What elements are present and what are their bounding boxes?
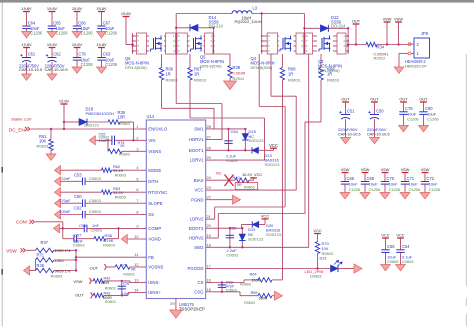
- svg-text:C65: C65: [53, 20, 61, 25]
- svg-text:C0603: C0603: [89, 209, 102, 214]
- svg-text:R0603: R0603: [327, 78, 340, 83]
- svg-text:VCC: VCC: [269, 143, 278, 148]
- svg-text:19.8V: 19.8V: [72, 6, 83, 11]
- svg-text:PQ2012_10UH: PQ2012_10UH: [235, 19, 262, 24]
- svg-text:VSW: VSW: [383, 16, 392, 21]
- svg-text:R40: R40: [233, 175, 241, 180]
- svg-text:1R: 1R: [288, 72, 293, 77]
- svg-text:OUT: OUT: [75, 293, 84, 298]
- svg-text:R0603: R0603: [119, 152, 130, 156]
- svg-text:C61: C61: [28, 52, 36, 57]
- svg-text:19.8V: 19.8V: [21, 6, 32, 11]
- svg-text:C1206: C1206: [30, 30, 43, 35]
- svg-text:CAP-10-10.5: CAP-10-10.5: [45, 67, 69, 72]
- svg-text:BIAS: BIAS: [194, 178, 204, 183]
- svg-text:D21: D21: [320, 255, 328, 260]
- svg-text:10K0: 10K0: [55, 258, 65, 263]
- svg-text:R71: R71: [37, 252, 45, 257]
- svg-text:CSG: CSG: [194, 289, 204, 294]
- svg-text:VSW: VSW: [73, 279, 82, 284]
- svg-text:15: 15: [207, 287, 211, 292]
- svg-text:SLOPE: SLOPE: [148, 201, 162, 206]
- svg-text:VISNS: VISNS: [148, 149, 161, 154]
- svg-text:C0603: C0603: [73, 242, 84, 247]
- svg-text:22nF: 22nF: [61, 176, 71, 181]
- svg-text:2: 2: [136, 135, 138, 140]
- svg-text:Stable 3.3V: Stable 3.3V: [11, 116, 32, 121]
- svg-text:TSSOP28-EP: TSSOP28-EP: [179, 307, 205, 312]
- svg-text:10R: 10R: [118, 114, 126, 119]
- svg-text:DO-214: DO-214: [209, 24, 224, 29]
- svg-text:R0603: R0603: [244, 186, 255, 190]
- svg-text:21: 21: [207, 214, 211, 219]
- svg-text:SOD123: SOD123: [265, 162, 280, 167]
- svg-text:27: 27: [207, 135, 211, 140]
- svg-text:JP8: JP8: [421, 31, 429, 36]
- svg-text:R0603: R0603: [288, 78, 301, 83]
- svg-text:R0603: R0603: [240, 282, 251, 286]
- svg-text:8: 8: [136, 210, 138, 215]
- svg-text:VOSNS: VOSNS: [148, 265, 163, 270]
- svg-text:C84: C84: [231, 129, 239, 134]
- svg-text:C70: C70: [387, 176, 395, 181]
- svg-text:C56: C56: [387, 244, 395, 249]
- svg-text:CAP-10-10.5: CAP-10-10.5: [19, 67, 43, 72]
- svg-text:C53: C53: [74, 172, 82, 177]
- svg-text:1R: 1R: [327, 72, 332, 77]
- svg-text:11: 11: [135, 252, 139, 257]
- svg-text:L3: L3: [253, 6, 258, 11]
- svg-text:100R: 100R: [252, 278, 261, 282]
- svg-text:C78: C78: [78, 52, 86, 57]
- svg-text:0R: 0R: [237, 183, 242, 187]
- svg-text:19.8V: 19.8V: [96, 6, 107, 11]
- svg-text:C68: C68: [347, 176, 355, 181]
- svg-text:22: 22: [207, 195, 211, 200]
- svg-text:C1206: C1206: [81, 62, 94, 67]
- svg-text:CAP-10-10.5: CAP-10-10.5: [367, 131, 390, 136]
- svg-text:1R: 1R: [166, 72, 171, 77]
- svg-text:R43: R43: [104, 291, 111, 295]
- svg-text:C0603: C0603: [89, 176, 102, 181]
- svg-text:C69: C69: [367, 176, 375, 181]
- svg-text:5: 5: [136, 176, 138, 181]
- svg-text:100nF: 100nF: [59, 209, 71, 214]
- svg-text:10K0 1%: 10K0 1%: [55, 248, 71, 253]
- svg-text:R0603: R0603: [119, 122, 130, 126]
- svg-text:26: 26: [207, 145, 211, 150]
- svg-text:23: 23: [207, 185, 211, 190]
- svg-text:R75: R75: [120, 263, 127, 267]
- svg-text:17: 17: [207, 264, 211, 269]
- svg-text:SOD123: SOD123: [249, 138, 264, 143]
- svg-text:7: 7: [136, 198, 138, 203]
- svg-text:10uF: 10uF: [389, 181, 399, 186]
- svg-text:LDRV2: LDRV2: [190, 217, 204, 222]
- svg-text:13: 13: [134, 278, 138, 283]
- svg-text:R0603: R0603: [103, 242, 114, 247]
- svg-text:DO-214: DO-214: [331, 24, 346, 29]
- svg-text:C62: C62: [53, 52, 61, 57]
- svg-text:NC: NC: [216, 170, 222, 175]
- svg-text:10uF: 10uF: [349, 181, 359, 186]
- svg-text:EN/UVLO: EN/UVLO: [148, 127, 168, 132]
- svg-text:C1206: C1206: [349, 187, 360, 192]
- svg-text:OUT: OUT: [352, 18, 361, 23]
- svg-text:VCC: VCC: [261, 214, 270, 219]
- svg-text:R34: R34: [377, 44, 385, 49]
- svg-text:PGOOD: PGOOD: [188, 266, 204, 271]
- svg-text:0.003R: 0.003R: [233, 71, 246, 76]
- svg-text:C0603: C0603: [91, 228, 102, 233]
- svg-text:C0603: C0603: [226, 288, 237, 292]
- svg-text:10uF: 10uF: [429, 181, 439, 186]
- svg-text:C0603: C0603: [89, 198, 102, 203]
- svg-text:RT/SYNC: RT/SYNC: [148, 190, 167, 195]
- svg-text:C55: C55: [79, 223, 87, 228]
- svg-text:HDRV2: HDRV2: [189, 236, 204, 241]
- svg-text:C1206: C1206: [427, 116, 438, 121]
- svg-text:C71: C71: [407, 176, 415, 181]
- svg-text:10uF: 10uF: [99, 139, 108, 143]
- svg-text:R2512: R2512: [233, 76, 246, 81]
- svg-text:BOOT2: BOOT2: [189, 226, 204, 231]
- svg-text:R37: R37: [41, 240, 49, 245]
- svg-text:1R: 1R: [194, 72, 199, 77]
- svg-text:VSW: VSW: [361, 167, 370, 172]
- svg-text:R0603: R0603: [115, 174, 126, 178]
- svg-text:R0603: R0603: [105, 300, 116, 304]
- svg-text:C1206: C1206: [81, 30, 94, 35]
- svg-text:C57: C57: [74, 232, 82, 237]
- svg-text:C1206: C1206: [429, 187, 440, 192]
- svg-text:C1206: C1206: [369, 187, 380, 192]
- svg-text:R0603: R0603: [105, 286, 116, 290]
- svg-text:C66: C66: [78, 20, 86, 25]
- svg-text:VSW: VSW: [401, 167, 410, 172]
- svg-text:DC_EN: DC_EN: [9, 128, 25, 133]
- svg-text:C1206: C1206: [56, 30, 69, 35]
- svg-text:VSW: VSW: [394, 16, 403, 21]
- svg-text:R0603: R0603: [194, 78, 207, 83]
- svg-text:C0603: C0603: [227, 252, 238, 257]
- svg-text:DFN-8(5X6): DFN-8(5X6): [125, 65, 147, 70]
- svg-text:19.8V: 19.8V: [59, 98, 70, 103]
- svg-text:D0603: D0603: [310, 274, 321, 279]
- svg-text:C58: C58: [123, 282, 130, 286]
- svg-text:19.8V: 19.8V: [96, 42, 107, 47]
- svg-text:OUT: OUT: [341, 96, 350, 101]
- svg-text:10.2V: 10.2V: [242, 172, 253, 177]
- svg-text:SOD123: SOD123: [84, 123, 99, 127]
- svg-text:R2512: R2512: [374, 56, 387, 61]
- svg-text:33.2K: 33.2K: [113, 190, 124, 195]
- svg-text:C1206: C1206: [105, 62, 118, 67]
- svg-text:9: 9: [136, 223, 138, 228]
- svg-text:DFN-8(5X6): DFN-8(5X6): [251, 65, 273, 70]
- svg-text:C60: C60: [74, 194, 82, 199]
- svg-text:R0603: R0603: [51, 274, 64, 279]
- svg-text:29: 29: [170, 301, 174, 306]
- svg-text:HDRV1: HDRV1: [189, 137, 204, 142]
- svg-text:ISNS-: ISNS-: [148, 280, 160, 285]
- svg-text:MODE: MODE: [148, 168, 161, 173]
- svg-text:SW2: SW2: [194, 245, 204, 250]
- svg-text:R0603: R0603: [244, 301, 255, 305]
- svg-text:BOOT1: BOOT1: [189, 148, 204, 153]
- svg-text:10uF: 10uF: [369, 181, 379, 186]
- svg-text:C79: C79: [405, 106, 413, 111]
- svg-text:2K: 2K: [120, 144, 125, 148]
- svg-text:28: 28: [207, 124, 211, 129]
- svg-text:DITH: DITH: [148, 179, 158, 184]
- svg-text:R64: R64: [250, 273, 257, 277]
- svg-text:ISNS+: ISNS+: [148, 290, 161, 295]
- svg-text:18: 18: [207, 242, 211, 247]
- svg-text:C80: C80: [425, 106, 433, 111]
- svg-text:VCC: VCC: [313, 228, 321, 233]
- svg-text:C1206: C1206: [407, 116, 418, 121]
- svg-text:OUT: OUT: [370, 96, 379, 101]
- svg-text:19.8V: 19.8V: [47, 6, 58, 11]
- svg-text:16: 16: [207, 278, 211, 283]
- svg-text:19.8V: 19.8V: [21, 42, 32, 47]
- svg-text:R65: R65: [251, 291, 258, 295]
- svg-text:93.1K: 93.1K: [113, 168, 124, 173]
- svg-text:C72: C72: [427, 176, 435, 181]
- svg-text:10uF: 10uF: [409, 181, 419, 186]
- svg-text:VSW: VSW: [6, 248, 17, 253]
- svg-text:PMEG6010CEH: PMEG6010CEH: [86, 111, 115, 116]
- svg-text:OUT: OUT: [419, 96, 428, 101]
- svg-text:R45: R45: [37, 263, 45, 268]
- svg-text:C1206: C1206: [105, 30, 118, 35]
- svg-text:6: 6: [136, 187, 138, 192]
- svg-text:C62: C62: [74, 206, 82, 211]
- svg-text:R0603: R0603: [123, 272, 134, 276]
- svg-text:C1206: C1206: [409, 187, 420, 192]
- svg-text:HBM350-2P: HBM350-2P: [405, 63, 427, 68]
- svg-text:VSW: VSW: [341, 167, 350, 172]
- svg-text:OUT: OUT: [399, 96, 408, 101]
- svg-text:U14: U14: [147, 114, 155, 119]
- svg-text:VCC: VCC: [254, 172, 262, 177]
- svg-text:SOD123: SOD123: [248, 237, 263, 242]
- svg-text:100R: 100R: [100, 281, 109, 285]
- svg-text:25: 25: [207, 155, 211, 160]
- svg-text:R0603: R0603: [37, 143, 50, 148]
- svg-text:DFN-8(5X6): DFN-8(5X6): [200, 64, 222, 69]
- svg-text:VIN: VIN: [148, 138, 155, 143]
- svg-text:AGND: AGND: [148, 237, 160, 242]
- svg-text:C1206: C1206: [389, 187, 400, 192]
- svg-text:C50: C50: [376, 109, 384, 114]
- svg-text:3: 3: [136, 146, 138, 151]
- svg-text:C64: C64: [28, 20, 36, 25]
- svg-text:VSW: VSW: [381, 167, 390, 172]
- svg-text:R39: R39: [233, 65, 241, 70]
- svg-text:PGND: PGND: [191, 197, 203, 202]
- svg-text:SOD123: SOD123: [266, 232, 281, 237]
- svg-text:CS: CS: [198, 280, 204, 285]
- svg-text:FB: FB: [148, 255, 154, 260]
- svg-text:C0805: C0805: [387, 259, 398, 264]
- svg-text:19.8V: 19.8V: [47, 42, 58, 47]
- svg-text:1: 1: [136, 124, 138, 129]
- svg-text:C63: C63: [103, 52, 111, 57]
- svg-text:VCC: VCC: [194, 188, 203, 193]
- svg-text:0R: 0R: [131, 268, 136, 272]
- svg-text:270pF: 270pF: [59, 198, 71, 203]
- svg-text:C67: C67: [103, 20, 111, 25]
- svg-text:C59: C59: [229, 226, 237, 231]
- svg-text:19: 19: [207, 233, 211, 238]
- svg-text:COM: COM: [16, 220, 27, 225]
- svg-text:C54: C54: [402, 244, 410, 249]
- svg-text:LDRV1: LDRV1: [190, 158, 204, 163]
- svg-text:VSW: VSW: [421, 167, 430, 172]
- svg-text:C0603: C0603: [402, 259, 413, 264]
- svg-text:VCC: VCC: [381, 232, 389, 237]
- svg-text:SW1: SW1: [194, 127, 204, 132]
- svg-text:12: 12: [134, 262, 138, 267]
- svg-text:VCC: VCC: [396, 232, 404, 237]
- svg-text:100R: 100R: [259, 296, 268, 300]
- svg-text:CAP-10-10.5: CAP-10-10.5: [338, 131, 361, 136]
- svg-text:C51: C51: [347, 109, 355, 114]
- svg-text:OUT: OUT: [90, 265, 99, 270]
- svg-text:19.8V: 19.8V: [121, 11, 132, 16]
- svg-text:R0603: R0603: [115, 196, 126, 200]
- svg-text:COMP: COMP: [148, 226, 161, 231]
- svg-text:19.8V: 19.8V: [72, 42, 83, 47]
- svg-text:R0603: R0603: [166, 78, 179, 83]
- svg-text:SS: SS: [148, 212, 154, 217]
